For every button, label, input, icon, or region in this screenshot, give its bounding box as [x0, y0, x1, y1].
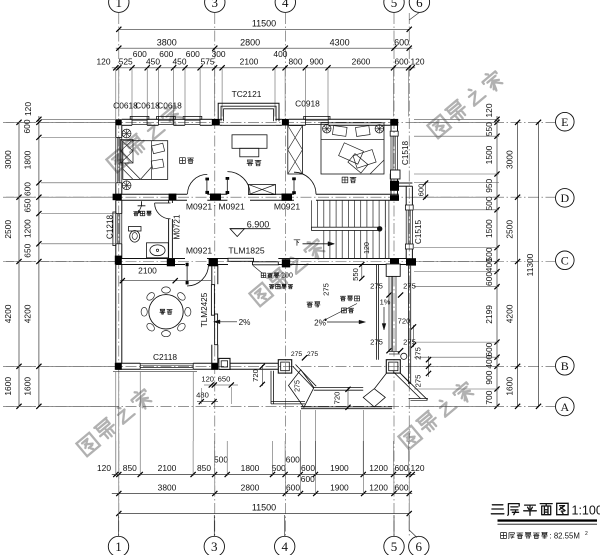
svg-text:800: 800	[289, 56, 303, 66]
svg-text:6: 6	[416, 539, 423, 554]
svg-text:900: 900	[310, 56, 324, 66]
svg-text:M0921: M0921	[186, 201, 212, 211]
svg-text:600: 600	[286, 454, 300, 464]
svg-text:C2118: C2118	[153, 352, 177, 362]
svg-text:600: 600	[186, 49, 200, 59]
svg-text:: 82.55M: : 82.55M	[550, 531, 580, 540]
svg-text:D: D	[560, 191, 569, 205]
svg-text:600: 600	[23, 182, 33, 196]
svg-text:1200: 1200	[23, 219, 33, 238]
svg-text:·: ·	[213, 200, 216, 210]
svg-text:650: 650	[23, 198, 33, 212]
svg-text:275: 275	[370, 281, 383, 290]
svg-text:C1515: C1515	[414, 219, 423, 244]
svg-text:1: 1	[116, 0, 123, 10]
svg-text:3800: 3800	[157, 37, 177, 47]
svg-text:1200: 1200	[369, 463, 388, 473]
svg-text:11300: 11300	[525, 253, 535, 276]
svg-text:11500: 11500	[252, 19, 276, 29]
svg-text:4200: 4200	[3, 304, 13, 323]
svg-text:275: 275	[321, 283, 330, 296]
svg-text:600: 600	[395, 56, 409, 66]
svg-text:400: 400	[273, 49, 287, 59]
svg-text:M0921: M0921	[218, 201, 244, 211]
svg-text:C1518: C1518	[401, 140, 410, 165]
svg-text:850: 850	[197, 463, 211, 473]
svg-text:M0921: M0921	[274, 201, 300, 211]
svg-text:720: 720	[251, 369, 260, 382]
svg-text:650: 650	[218, 375, 231, 384]
svg-text:11500: 11500	[252, 502, 276, 512]
svg-text:720: 720	[398, 317, 411, 326]
svg-text:3: 3	[211, 539, 218, 554]
svg-text:600: 600	[286, 482, 300, 492]
svg-text:4: 4	[281, 539, 288, 554]
svg-text:2500: 2500	[505, 220, 515, 239]
svg-text:3000: 3000	[3, 150, 13, 169]
svg-text:1600: 1600	[3, 377, 13, 396]
svg-text:2100: 2100	[138, 266, 157, 276]
svg-text:1:100: 1:100	[572, 504, 600, 518]
svg-text:M0921: M0921	[186, 245, 212, 255]
svg-text:E: E	[561, 115, 568, 129]
svg-text:3: 3	[212, 0, 219, 10]
svg-text:B: B	[561, 359, 569, 373]
svg-text:1500: 1500	[484, 219, 494, 238]
svg-text:120: 120	[411, 463, 425, 473]
svg-text:2%: 2%	[314, 318, 326, 327]
svg-text:3800: 3800	[158, 482, 177, 492]
svg-text:2100: 2100	[158, 463, 177, 473]
svg-text:400: 400	[484, 258, 494, 272]
svg-text:600: 600	[301, 463, 315, 473]
svg-text:4200: 4200	[505, 304, 515, 323]
svg-text:275: 275	[295, 380, 302, 392]
svg-text:600: 600	[416, 184, 425, 197]
svg-text:550: 550	[484, 122, 494, 136]
svg-text:600: 600	[395, 482, 409, 492]
svg-text:600: 600	[395, 463, 409, 473]
svg-text:120: 120	[97, 463, 111, 473]
svg-text:C1218: C1218	[105, 214, 114, 239]
svg-text:120: 120	[484, 103, 494, 117]
svg-text:120: 120	[23, 102, 33, 116]
svg-text:120: 120	[201, 375, 214, 384]
svg-text:650: 650	[23, 243, 33, 257]
svg-text:2800: 2800	[241, 482, 260, 492]
svg-text:500: 500	[214, 454, 228, 464]
svg-text:850: 850	[123, 463, 137, 473]
svg-text:480: 480	[196, 391, 209, 400]
svg-text:TC2121: TC2121	[232, 89, 262, 99]
svg-text:1800: 1800	[23, 150, 33, 169]
svg-text:M0721: M0721	[173, 214, 182, 239]
svg-text:5: 5	[391, 0, 398, 10]
svg-text:C0618: C0618	[157, 101, 182, 111]
svg-text:1600: 1600	[23, 377, 33, 396]
svg-text:275: 275	[414, 375, 423, 388]
svg-text:500: 500	[484, 196, 494, 210]
svg-text:700: 700	[484, 390, 494, 404]
svg-text:500: 500	[272, 463, 286, 473]
svg-text:1: 1	[115, 539, 122, 554]
svg-text:600: 600	[22, 119, 32, 133]
svg-text:120: 120	[97, 56, 111, 66]
svg-text:200: 200	[281, 273, 293, 280]
svg-text:900: 900	[484, 370, 494, 384]
svg-text:275: 275	[414, 347, 423, 360]
svg-text:2199: 2199	[484, 305, 494, 324]
svg-text:C: C	[561, 254, 569, 268]
svg-text:C0918: C0918	[295, 98, 320, 108]
svg-text:2100: 2100	[240, 56, 259, 66]
svg-text:2500: 2500	[3, 220, 13, 239]
svg-text:600: 600	[394, 37, 409, 47]
svg-text:600: 600	[484, 272, 494, 286]
svg-text:120: 120	[411, 56, 425, 66]
svg-text:6.900: 6.900	[247, 219, 270, 229]
svg-text:2800: 2800	[240, 37, 260, 47]
svg-text:TLM1825: TLM1825	[228, 245, 265, 255]
svg-text:450: 450	[173, 56, 187, 66]
svg-text:275: 275	[403, 281, 416, 290]
svg-text:600: 600	[159, 49, 173, 59]
svg-text:1900: 1900	[330, 482, 349, 492]
svg-text:720: 720	[333, 392, 342, 405]
svg-text:275: 275	[370, 338, 383, 347]
svg-text:275: 275	[307, 351, 319, 358]
svg-text:3000: 3000	[505, 150, 515, 169]
svg-text:300: 300	[212, 49, 226, 59]
svg-text:1800: 1800	[241, 463, 260, 473]
svg-text:4300: 4300	[330, 37, 350, 47]
svg-text:450: 450	[146, 56, 160, 66]
svg-text:525: 525	[119, 56, 133, 66]
svg-text:600: 600	[484, 342, 494, 356]
svg-text:600: 600	[301, 474, 315, 484]
svg-text:600: 600	[133, 49, 147, 59]
svg-text:4200: 4200	[23, 304, 33, 323]
svg-text:1600: 1600	[505, 377, 515, 396]
svg-text:4: 4	[282, 0, 289, 10]
svg-text:2%: 2%	[239, 318, 251, 327]
svg-text:6: 6	[416, 0, 423, 10]
svg-text:1500: 1500	[484, 145, 494, 164]
svg-text:1200: 1200	[369, 482, 388, 492]
svg-text:5: 5	[391, 539, 398, 554]
svg-text:A: A	[560, 400, 569, 414]
svg-text:2: 2	[585, 531, 588, 537]
svg-text:1900: 1900	[330, 463, 349, 473]
svg-text:2600: 2600	[352, 56, 371, 66]
svg-text:550: 550	[351, 268, 360, 281]
svg-text:950: 950	[484, 178, 494, 192]
svg-text:120: 120	[364, 242, 371, 254]
svg-text:TLM2425: TLM2425	[200, 292, 209, 327]
svg-text:275: 275	[291, 351, 303, 358]
